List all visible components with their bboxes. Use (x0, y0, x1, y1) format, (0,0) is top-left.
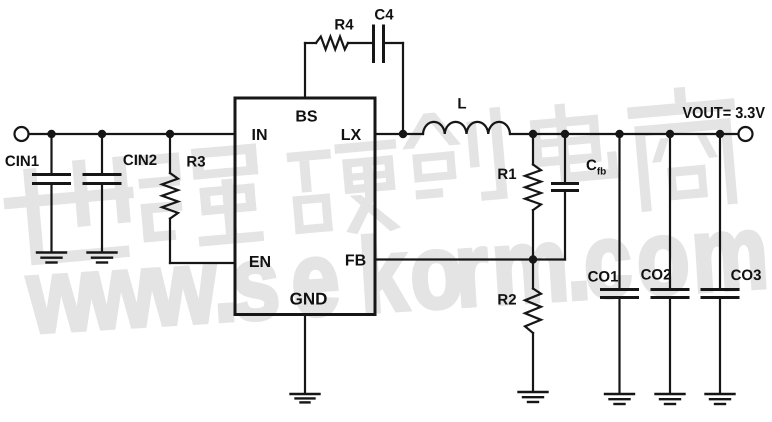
node CIN2 junction (98, 130, 106, 138)
ground (CO3) (706, 394, 735, 404)
svg-text:CO3: CO3 (731, 267, 762, 284)
svg-text:IN: IN (252, 127, 268, 144)
svg-text:VOUT= 3.3V: VOUT= 3.3V (683, 105, 766, 122)
wire R4 to C4 (348, 42, 372, 44)
capacitor C4 (374, 26, 384, 62)
qiang (136, 143, 264, 251)
resistor R4 (316, 37, 348, 50)
resistor R2 (525, 260, 541, 391)
wire BS pin (304, 43, 306, 98)
capacitor CIN2 (84, 134, 120, 251)
node CO1 junction (615, 130, 623, 138)
svg-text:L: L (457, 96, 466, 113)
inductor L (423, 122, 510, 134)
svg-text:C4: C4 (374, 7, 394, 24)
wire input rail (29, 133, 235, 135)
ying (286, 139, 404, 240)
line 1: chinese chars (1, 83, 744, 268)
wire FB rail (375, 258, 565, 260)
op-amp U1 (regulator IC) (235, 98, 375, 315)
line 2: www.sekorm.com (23, 193, 771, 356)
node R3 junction (166, 130, 174, 138)
node CO3 junction (716, 130, 724, 138)
dian (529, 99, 619, 185)
resistor R3 (162, 134, 178, 263)
capacitor CO3 (702, 134, 738, 393)
output terminal VOUT (739, 127, 753, 141)
capacitor Cfb (553, 134, 578, 260)
svg-text:FB: FB (345, 253, 366, 270)
svg-text:EN: EN (249, 254, 271, 271)
capacitor CO1 (602, 134, 638, 393)
node FB junction (529, 255, 537, 263)
ground (CIN2) (88, 253, 117, 263)
input terminal (15, 127, 29, 141)
wire R3 to EN (170, 262, 235, 264)
svg-text:BS: BS (295, 109, 318, 126)
svg-text:CIN2: CIN2 (123, 152, 157, 169)
shi (1, 156, 139, 268)
wire BS to R4 (305, 42, 316, 44)
wire output rail (510, 133, 738, 135)
svg-text:R2: R2 (497, 292, 516, 309)
shang (626, 83, 744, 213)
ground (CIN1) (37, 253, 66, 263)
ground (CO1) (605, 394, 634, 404)
ground (GND) (291, 394, 320, 402)
node CIN1 junction (47, 130, 55, 138)
svg-text:CO1: CO1 (588, 269, 619, 286)
svg-text:GND: GND (290, 290, 328, 309)
wire C4 to LX node (384, 42, 403, 44)
svg-text:LX: LX (341, 127, 362, 144)
svg-text:R4: R4 (334, 17, 354, 34)
ground (CO2) (656, 394, 685, 404)
capacitor CO2 (652, 134, 688, 393)
svg-text:R1: R1 (497, 166, 516, 183)
resistor R1 (525, 134, 541, 260)
node LX junction (399, 130, 407, 138)
svg-text:R3: R3 (186, 154, 205, 171)
chuang (399, 107, 507, 207)
ground (R2) (519, 392, 548, 402)
node R1 junction (529, 130, 537, 138)
wire GND pin (304, 315, 306, 393)
svg-text:CIN1: CIN1 (5, 153, 39, 170)
node CO2 junction (666, 130, 674, 138)
capacitor CIN1 (34, 134, 70, 251)
svg-text:CO2: CO2 (641, 267, 672, 284)
node Cfb junction (561, 130, 569, 138)
wire LX rail (375, 133, 423, 135)
